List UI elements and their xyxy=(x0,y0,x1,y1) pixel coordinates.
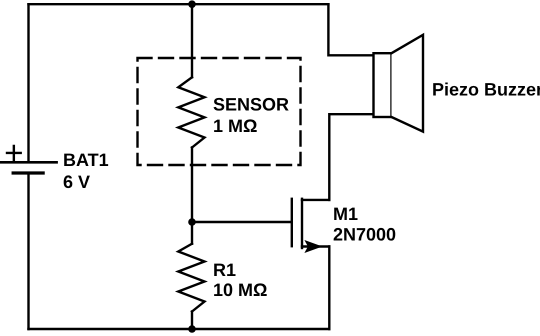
dashed sensor enclosure xyxy=(138,58,301,165)
resistor R1 (zigzag body) xyxy=(178,244,204,312)
svg-text:SENSOR: SENSOR xyxy=(213,95,289,115)
wire left rail (battery + to top rail) xyxy=(27,4,29,161)
node C: bottom rail junction xyxy=(188,325,196,333)
svg-text:6 V: 6 V xyxy=(63,172,90,192)
battery BAT1 positive plate xyxy=(1,161,57,164)
transistor M1 channel bar xyxy=(301,199,303,248)
svg-text:2N7000: 2N7000 xyxy=(333,225,396,245)
wire gate (node to M1 gate) xyxy=(192,221,292,223)
node A: top rail / sensor junction xyxy=(188,0,196,8)
battery + polarity mark xyxy=(7,146,21,160)
piezo buzzer cone xyxy=(392,35,424,132)
wire top rail to buzzer + terminal xyxy=(328,4,373,55)
transistor M1 gate bar xyxy=(291,199,293,246)
svg-text:M1: M1 xyxy=(333,204,358,224)
wire battery negative to bottom rail xyxy=(27,175,29,329)
wire bottom rail xyxy=(29,328,330,330)
svg-text:10 MΩ: 10 MΩ xyxy=(213,280,267,300)
wire top rail to SENSOR xyxy=(191,4,193,77)
wire gate node to R1 xyxy=(191,222,193,244)
transistor M1 source arrow xyxy=(304,240,322,253)
piezo buzzer driver body xyxy=(374,53,392,117)
transistor M1 source lead xyxy=(302,245,329,247)
resistor SENSOR (zigzag body) xyxy=(178,77,204,147)
svg-text:BAT1: BAT1 xyxy=(63,150,109,170)
svg-text:1 MΩ: 1 MΩ xyxy=(213,116,257,136)
node B: gate junction xyxy=(188,218,196,226)
svg-text:Piezo Buzzer: Piezo Buzzer xyxy=(432,80,540,100)
battery BAT1 negative plate xyxy=(13,171,43,174)
wire R1 to bottom rail xyxy=(191,312,193,330)
wire drain to buzzer - terminal xyxy=(329,114,373,200)
wire SENSOR to gate node xyxy=(191,148,193,223)
wire source to bottom rail xyxy=(328,247,330,330)
transistor M1 drain lead xyxy=(302,199,329,201)
svg-text:R1: R1 xyxy=(213,260,236,280)
wire top rail xyxy=(29,3,329,5)
